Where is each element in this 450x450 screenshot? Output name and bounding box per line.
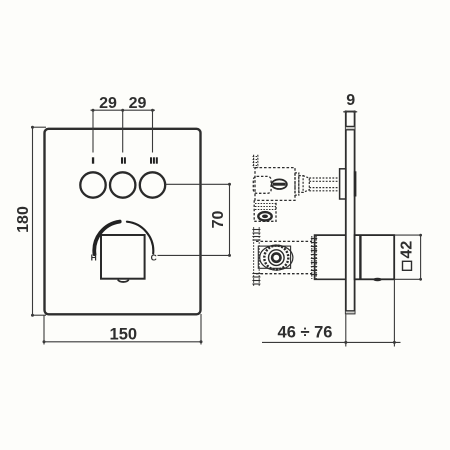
stem step 1	[295, 173, 299, 195]
cartridge inlet flange threaded	[252, 227, 260, 286]
dimension 29 29	[91, 110, 156, 152]
valve stem slot ellipse	[272, 179, 287, 189]
svg-text:29: 29	[129, 95, 147, 112]
cartridge inner housing rect	[258, 246, 290, 268]
diverter button II	[110, 172, 135, 197]
svg-text:46 ÷ 76: 46 ÷ 76	[278, 324, 333, 342]
svg-text:180: 180	[15, 206, 32, 233]
knob profile side	[355, 235, 395, 279]
dimension square 42	[394, 235, 422, 279]
push stem shaft	[309, 178, 339, 191]
knob screw detail	[373, 278, 382, 281]
cartridge body hidden	[256, 241, 312, 273]
temperature knob square	[101, 235, 145, 279]
svg-text:H: H	[91, 253, 97, 263]
dimension 180	[31, 127, 46, 315]
svg-text:9: 9	[346, 92, 355, 109]
svg-text:29: 29	[99, 95, 117, 112]
dimension 9	[343, 111, 357, 113]
valve hex nut	[253, 176, 271, 193]
knob bottom notch	[118, 280, 129, 282]
knob arc cold side	[127, 222, 153, 254]
knob base edge	[359, 236, 361, 280]
dimension 46-76	[262, 280, 401, 347]
diverter button I	[80, 172, 105, 197]
dimension 70	[158, 184, 230, 255]
svg-text:70: 70	[210, 211, 227, 229]
wall plate side profile	[346, 112, 355, 314]
label III	[150, 157, 152, 163]
label I	[92, 157, 94, 163]
push button edge on plate	[354, 171, 357, 196]
plate top seam	[346, 126, 355, 129]
diverter valve body hidden	[255, 168, 295, 201]
dimension 150	[44, 314, 201, 345]
knob arc hot side	[94, 222, 119, 255]
svg-text:42: 42	[399, 241, 416, 259]
label II	[121, 157, 123, 163]
wall plate front view	[45, 129, 201, 314]
cartridge housing through wall	[315, 235, 346, 279]
cartridge concentric rings	[260, 245, 293, 270]
svg-text:150: 150	[110, 326, 138, 344]
svg-text:C: C	[151, 253, 157, 263]
cartridge thread near plate	[311, 236, 317, 279]
diverter button III	[140, 172, 165, 197]
stem step 2	[299, 176, 303, 193]
top inlet pipe threaded	[253, 155, 259, 168]
outlet port ellipse	[258, 212, 271, 220]
stem taper	[303, 176, 309, 193]
outlet port bracket below body	[254, 200, 276, 221]
plate bottom seam	[346, 311, 355, 314]
stem flange	[340, 169, 346, 199]
